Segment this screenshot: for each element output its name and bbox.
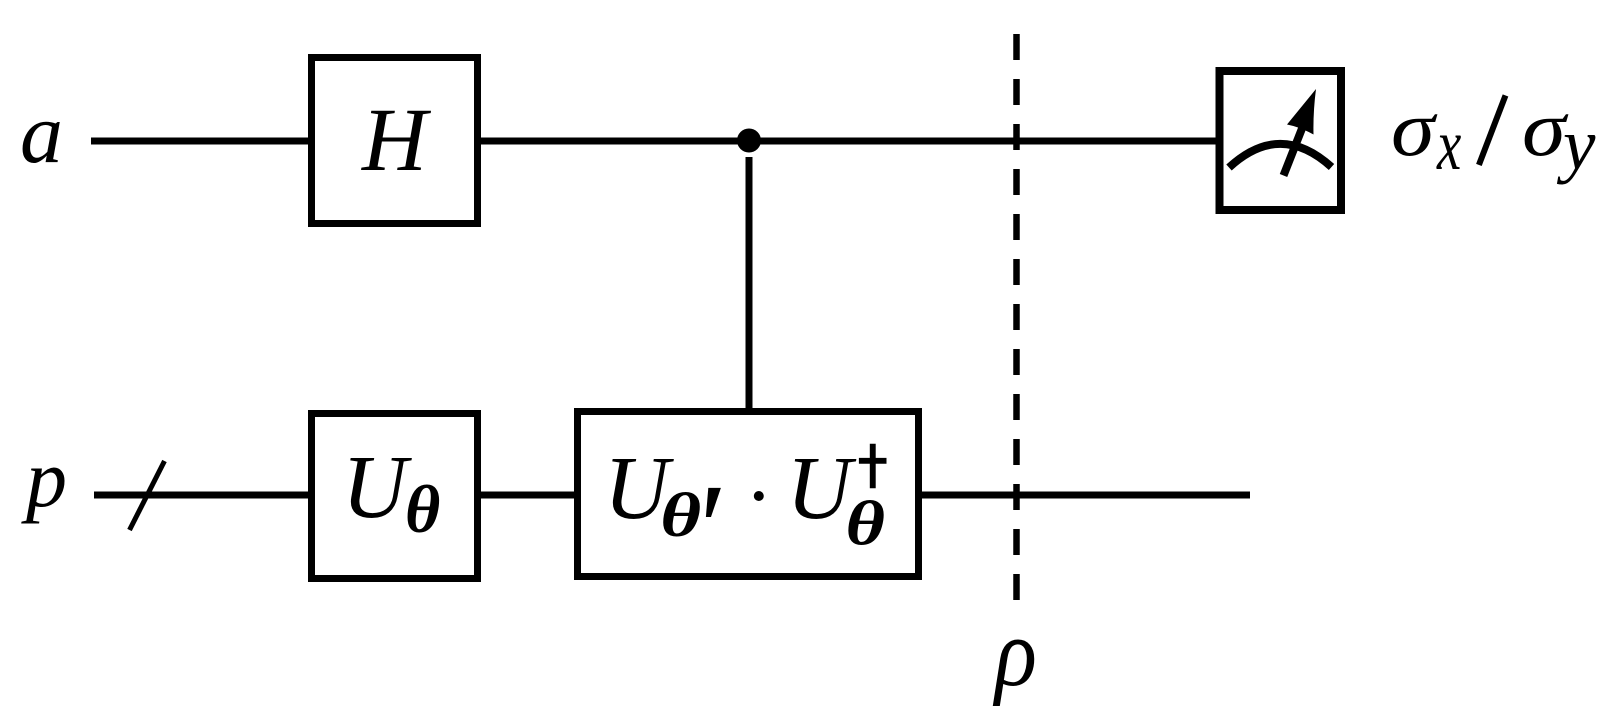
cdot — [754, 491, 764, 501]
bus slash on wire p — [130, 461, 165, 530]
svg-text:p: p — [21, 433, 67, 524]
svg-text:H: H — [361, 91, 432, 190]
svg-text:a: a — [20, 85, 63, 181]
barrier dashed line — [1013, 34, 1020, 600]
gate U_theta box — [312, 414, 478, 579]
svg-text:′: ′ — [698, 460, 726, 596]
measurement meter box — [1220, 71, 1342, 210]
gate U_theta_prime dot U_theta_dagger box — [578, 412, 919, 577]
svg-text:x: x — [1436, 105, 1461, 185]
wire p right segment — [922, 492, 1250, 499]
meter needle arrowhead — [1287, 89, 1316, 135]
wire a left segment — [91, 138, 308, 145]
slash between sigmas — [1479, 95, 1506, 164]
meter needle — [1284, 129, 1303, 176]
svg-text:σ: σ — [1391, 85, 1438, 173]
wire a right segment — [481, 138, 1216, 145]
wire p left segment — [94, 492, 308, 499]
dagger superscript of U_theta_dagger — [859, 444, 887, 489]
control vertical wire — [746, 157, 753, 408]
svg-text:θ: θ — [405, 471, 440, 547]
svg-text:θ: θ — [660, 480, 701, 550]
wire p middle segment — [481, 492, 574, 499]
meter arc — [1229, 144, 1332, 168]
svg-text:U: U — [342, 438, 412, 537]
svg-text:ρ: ρ — [992, 598, 1037, 707]
gate H box — [312, 58, 478, 224]
control dot — [737, 129, 761, 153]
svg-text:θ: θ — [846, 489, 886, 559]
